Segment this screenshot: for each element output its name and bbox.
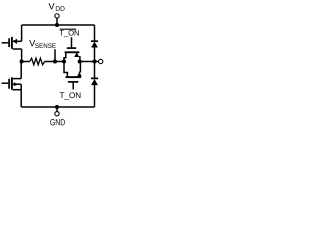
node VDD rail junction <box>55 23 59 27</box>
wire node to NMOS drain <box>20 62 22 79</box>
net label VSENSE <box>29 40 56 48</box>
VDD label <box>49 3 65 11</box>
wire junction to output node <box>80 61 95 63</box>
wire sense node to resistor <box>22 61 30 63</box>
transistor M4 (lower-right, pass NMOS) <box>66 72 82 90</box>
label T_ON (lower gate) <box>60 92 81 99</box>
transistor M1 (upper-left PMOS) <box>2 37 22 49</box>
node output <box>92 59 96 63</box>
wire NMOS source/body to bottom rail <box>20 84 22 107</box>
GND label <box>50 119 65 125</box>
label T_ON (inverted, overline) <box>59 30 78 37</box>
node right transistor output junction <box>78 59 82 63</box>
wire left top drop (rail to PMOS source) <box>21 25 23 41</box>
diode D1 (clamp to VDD) <box>91 41 98 61</box>
node sense node <box>20 59 24 63</box>
resistor R (sense) <box>30 58 45 65</box>
transistor M2 (lower-left NMOS) <box>2 77 22 89</box>
wire step to lower transistor <box>64 62 67 78</box>
GND terminal <box>55 112 59 116</box>
overline of T_ON <box>60 28 76 30</box>
wire resistor to junctions <box>45 61 64 63</box>
transistor M3 (upper-right, pass NMOS) <box>64 37 80 61</box>
diode D2 (clamp to GND) <box>91 78 98 107</box>
wire bottom GND rail <box>21 106 94 108</box>
wire right vertical (rail to upper diode) <box>94 25 96 41</box>
output terminal <box>95 59 103 63</box>
VDD terminal <box>55 14 59 18</box>
wire VSENSE stub <box>54 49 56 61</box>
wire GND stub <box>56 107 58 111</box>
wire PMOS drain to node <box>21 49 23 62</box>
wire right legs vertical <box>79 62 82 73</box>
node GND rail junction <box>55 105 59 109</box>
wire output to lower diode <box>94 62 96 79</box>
wire VDD stub <box>56 18 58 25</box>
wire top VDD rail <box>22 24 95 26</box>
node upper/lower right transistor junction <box>62 59 66 63</box>
node VSENSE junction <box>53 59 57 63</box>
